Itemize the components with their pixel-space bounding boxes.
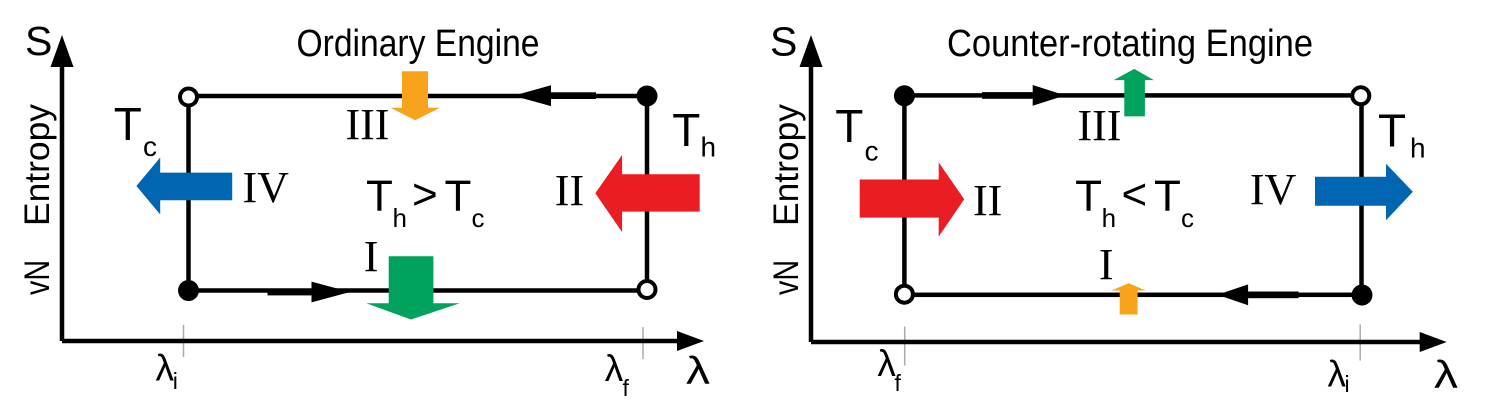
svg-text:Entropy: Entropy [767,103,806,226]
svg-text:h: h [1410,133,1426,164]
svg-text:λ: λ [1434,354,1459,397]
svg-text:Entropy: Entropy [18,103,57,226]
svg-text:S: S [25,18,52,64]
svg-text:T: T [1154,172,1181,221]
svg-text:f: f [623,375,630,401]
svg-text:T: T [1378,105,1406,157]
svg-text:T: T [835,100,863,152]
svg-text:IV: IV [1250,165,1297,214]
svg-text:λ: λ [156,348,175,389]
svg-text:c: c [143,131,157,162]
svg-text:Ordinary Engine: Ordinary Engine [297,23,540,65]
svg-text:i: i [173,368,178,394]
svg-text:IV: IV [243,163,290,212]
svg-text:vN: vN [18,260,57,295]
svg-text:i: i [1345,371,1350,397]
svg-text:c: c [865,136,879,167]
svg-text:λ: λ [686,350,711,393]
svg-text:>: > [412,170,438,219]
svg-text:h: h [1102,203,1116,233]
svg-text:h: h [393,203,407,233]
svg-text:<: < [1122,170,1148,219]
svg-text:III: III [346,100,390,149]
svg-text:Counter-rotating Engine: Counter-rotating Engine [947,23,1313,65]
svg-text:vN: vN [767,260,806,295]
svg-text:λ: λ [605,348,624,389]
svg-text:I: I [1099,240,1114,289]
svg-text:T: T [1075,172,1102,221]
svg-text:II: II [973,176,1002,225]
svg-text:h: h [701,132,717,163]
svg-text:T: T [114,98,142,150]
svg-text:I: I [364,232,379,281]
svg-text:c: c [1181,203,1194,233]
svg-text:T: T [445,172,472,221]
svg-text:III: III [1078,101,1122,150]
svg-text:c: c [472,203,485,233]
svg-text:f: f [895,370,902,396]
svg-text:T: T [366,172,393,221]
svg-text:T: T [672,104,700,156]
svg-text:S: S [770,19,797,65]
svg-text:II: II [555,166,584,215]
